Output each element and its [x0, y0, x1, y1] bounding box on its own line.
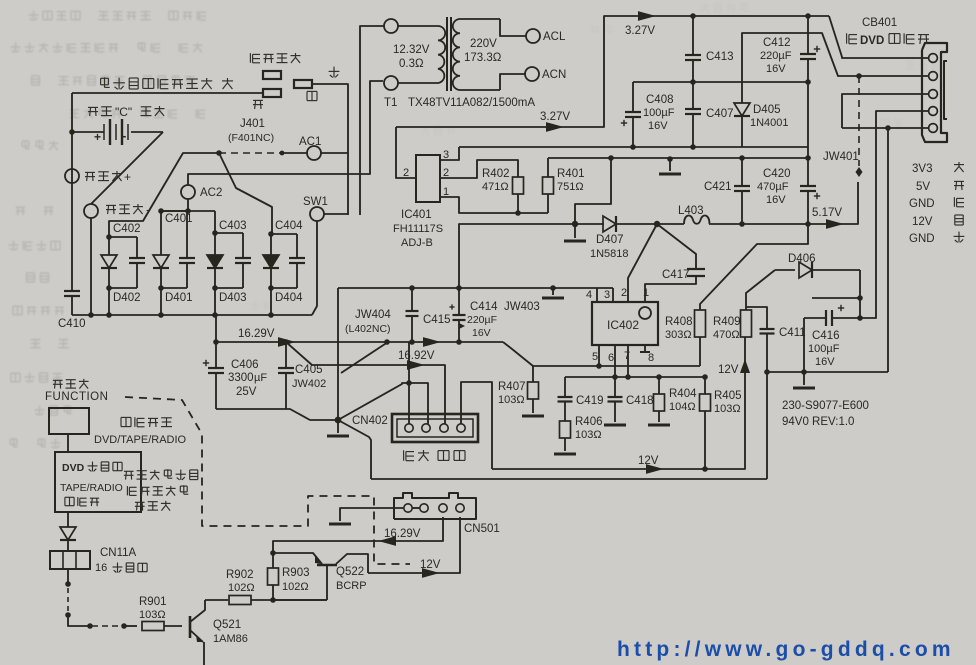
- wire: IC402 pin6 stub to C418 rail: [614, 345, 616, 377]
- svg-text:3V3: 3V3: [912, 163, 932, 175]
- svg-text:C411: C411: [779, 327, 806, 339]
- svg-text:DVD/TAPE/RADIO: DVD/TAPE/RADIO: [94, 434, 187, 446]
- label: linkage switch: [250, 53, 260, 63]
- node: top rail dots: [690, 13, 696, 19]
- label: gongnengniu FUNCTION: [53, 380, 63, 388]
- transformer T1 secondary winding 12.32V: [384, 19, 445, 90]
- svg-text:1AM86: 1AM86: [213, 633, 248, 645]
- svg-text:Q522: Q522: [336, 566, 364, 578]
- svg-text:12.32V: 12.32V: [393, 44, 430, 56]
- svg-text:D407: D407: [596, 234, 624, 246]
- svg-text:102Ω: 102Ω: [228, 582, 255, 594]
- wire: C416 left drop to gnd rail: [803, 318, 805, 372]
- capacitor C412 220uF 16V: [800, 16, 820, 82]
- svg-text:6: 6: [608, 352, 614, 364]
- label: bai (white): [329, 67, 340, 78]
- capacitor C418 + ground: [604, 377, 626, 425]
- diode D401: [153, 211, 169, 288]
- resistor R401 751ohm: [543, 158, 554, 213]
- svg-text:R402: R402: [482, 168, 510, 180]
- svg-text:R406: R406: [575, 416, 603, 428]
- diode D406: [775, 262, 860, 278]
- svg-text:16: 16: [95, 562, 107, 574]
- diode D407 1N5818: [575, 216, 657, 232]
- svg-text:2: 2: [621, 287, 627, 299]
- svg-text:103Ω: 103Ω: [575, 429, 602, 441]
- battery B1 (8x C cells): [72, 119, 163, 145]
- connector CN501: [394, 493, 476, 519]
- wire: battery minus diagonal to batt- terminal: [91, 132, 163, 204]
- node: center junction with ground: [335, 417, 342, 424]
- capacitor C417: [657, 224, 705, 276]
- terminal: SW1 circle: [310, 207, 324, 221]
- svg-text:C403: C403: [219, 220, 247, 232]
- wire: SW1 to white vertical: [324, 213, 348, 215]
- label: dianchi-: [106, 205, 116, 214]
- wire: IC401 pin2-right to R402 top: [440, 160, 518, 178]
- wire: pair C404/D404 top+bottom: [271, 233, 297, 235]
- svg-text:3300: 3300: [228, 372, 254, 384]
- label: dao: [307, 91, 317, 100]
- svg-text:7: 7: [624, 350, 630, 362]
- capacitor C404: [289, 234, 305, 288]
- block: function button box: [49, 408, 89, 434]
- svg-text:5V: 5V: [916, 181, 930, 193]
- wire: function box to DVD box: [67, 434, 69, 452]
- wire: gnd rail under C411/C416: [767, 371, 888, 373]
- wire: C408 rail: [633, 81, 808, 83]
- wire: CN501 pin3 16.29V line to Q522 emitter: [273, 517, 443, 553]
- wire: IC402 pin5 stub: [598, 345, 600, 366]
- svg-text:GND: GND: [909, 198, 935, 210]
- svg-text:C414: C414: [470, 301, 498, 313]
- node: battery + junction: [69, 129, 75, 135]
- resistor R404 104ohm + ground: [648, 377, 670, 425]
- wire: pair C402/D402 top+bottom: [109, 236, 137, 238]
- svg-text:FUNCTION: FUNCTION: [45, 391, 108, 403]
- svg-text:D401: D401: [165, 292, 193, 304]
- wire: R902 to Q522 base net: [273, 599, 327, 601]
- svg-text:25V: 25V: [236, 386, 257, 398]
- svg-text:ADJ-B: ADJ-B: [401, 237, 433, 249]
- label: huang (yellow): [222, 78, 233, 89]
- svg-text:3.27V: 3.27V: [625, 25, 655, 37]
- IC IC401 FH11117S ADJ-B: [416, 155, 440, 202]
- wire: IC401 pin1 to R402/R401 bottoms: [440, 197, 548, 213]
- node: J401 junction: [216, 150, 222, 156]
- capacitor C415: [406, 288, 419, 342]
- capacitor C401: [179, 211, 195, 288]
- svg-text:GND: GND: [909, 233, 935, 245]
- wire: IC401 pin3 to R rail: [440, 147, 459, 160]
- svg-text:R404: R404: [669, 388, 697, 400]
- wire: bridge bottom rail: [72, 314, 312, 316]
- wire: IC402 pin7 stub: [627, 345, 629, 377]
- svg-text:16V: 16V: [472, 327, 491, 339]
- capacitor C421: [734, 158, 750, 224]
- svg-text:100µF: 100µF: [643, 107, 675, 119]
- svg-text:Q521: Q521: [213, 619, 241, 631]
- wire: diagonal from 16.29V rail to center vertical: [341, 342, 388, 373]
- diode D (panel): [60, 527, 76, 540]
- svg-text:-: -: [122, 128, 126, 143]
- transformer T1 core: [446, 17, 448, 91]
- wire: CN402 pin1 drop: [408, 383, 410, 424]
- wire: J401 dashed link to AC1: [219, 152, 282, 154]
- wire: base line Q522: [273, 599, 327, 601]
- svg-text:R901: R901: [139, 596, 167, 608]
- wire: AC2 rail across C401/C403 tops: [161, 210, 215, 212]
- svg-text:173.3Ω: 173.3Ω: [464, 52, 502, 64]
- wire: AC2 stub and link to transformer secondary bottom: [187, 199, 189, 211]
- diode D402: [101, 237, 117, 288]
- wire: IC402 pin5 rail: [533, 365, 700, 367]
- svg-text:+: +: [124, 170, 131, 184]
- label: to DVD decoder board: [847, 33, 857, 43]
- svg-text:CB401: CB401: [862, 17, 897, 29]
- svg-text:C407: C407: [706, 108, 734, 120]
- terminal ACN: [525, 67, 539, 81]
- svg-text:5: 5: [592, 351, 598, 363]
- svg-text:J401: J401: [240, 118, 265, 130]
- wire: pin5 gnd drop to bottom gnd rail: [887, 128, 889, 372]
- dashed boundary: panel control board: [125, 397, 410, 564]
- svg-text:C415: C415: [423, 314, 451, 326]
- switch SW 'wei' upper contact: [263, 71, 281, 79]
- capacitor C420 470uF 16V: [800, 186, 820, 224]
- svg-text:SW1: SW1: [303, 196, 328, 208]
- capacitor C405 / JW402: [278, 342, 294, 409]
- wire: 16.29V rail with arrow: [216, 341, 503, 343]
- capacitor C407: [685, 82, 701, 147]
- svg-text:104Ω: 104Ω: [669, 401, 696, 413]
- wire: pair C403/D403 top+bottom: [215, 232, 243, 234]
- svg-text:12V: 12V: [638, 455, 659, 467]
- svg-text:100µF: 100µF: [808, 343, 840, 355]
- svg-text:R407: R407: [498, 381, 526, 393]
- wire: left vertical battery rail: [71, 93, 73, 288]
- wire: 5V net from D405 top to CB401 pin2: [742, 33, 929, 101]
- diode D403: [207, 233, 223, 288]
- pin: IC402 pin8 NC tick: [644, 345, 646, 352]
- label: wei: [253, 100, 263, 109]
- svg-text:C404: C404: [275, 220, 303, 232]
- node: D407 anode junction + ground: [572, 221, 578, 227]
- capacitor C416 100uF 16V electrolytic: [804, 305, 860, 326]
- diode D404: [263, 234, 279, 288]
- wire: C406/C405 bottom rail to center junction: [216, 409, 338, 420]
- transistor Q521 1AM86: [190, 600, 205, 665]
- transformer T1 primary winding 220V: [453, 19, 526, 90]
- wire: battery top to wei switch: [72, 92, 263, 94]
- wire: IC402 pin1 stub to C417: [645, 276, 696, 302]
- resistor R402 471ohm: [513, 177, 524, 194]
- svg-text:L403: L403: [678, 205, 704, 217]
- svg-text:230-S9077-E600: 230-S9077-E600: [782, 400, 869, 412]
- wire: transformer secondary top to vertical x360: [360, 26, 384, 215]
- svg-text:C401: C401: [165, 213, 193, 225]
- svg-text:C421: C421: [704, 181, 732, 193]
- svg-text:3.27V: 3.27V: [540, 111, 570, 123]
- terminal: batt+ circle: [65, 169, 79, 183]
- svg-text:C420: C420: [763, 168, 791, 180]
- wire: C408 branch down to adj rail: [632, 82, 634, 112]
- svg-text:R409: R409: [713, 316, 741, 328]
- wire: 12V rail to R409 bottom: [492, 337, 745, 469]
- wire: junction diagonal to CN402 pin1/pin2 header: [338, 383, 428, 424]
- switch SW 'wei' lower contact: [263, 89, 281, 97]
- svg-text:CN11A: CN11A: [100, 547, 137, 559]
- resistor R902 102ohm: [229, 596, 251, 605]
- svg-text:+: +: [94, 130, 101, 144]
- wire: SW1 down to bridge bottom rail: [312, 221, 317, 315]
- wire: mid rail (C415/C414 top) to IC402 pins: [338, 287, 613, 289]
- svg-text:16V: 16V: [648, 120, 668, 132]
- wire: dashed link to R901: [87, 623, 93, 629]
- capacitor C406 3300uF: [203, 315, 224, 409]
- svg-text:D402: D402: [113, 292, 141, 304]
- label: 8-cell C battery: [88, 107, 98, 116]
- wire: adj rail ground stub: [667, 156, 673, 162]
- svg-text:D406: D406: [788, 253, 816, 265]
- svg-text:ACL: ACL: [543, 31, 566, 43]
- svg-text:103Ω: 103Ω: [139, 609, 166, 621]
- svg-text:8: 8: [648, 352, 654, 364]
- svg-text:1: 1: [643, 287, 649, 299]
- svg-text:"C": "C": [115, 105, 132, 119]
- svg-text:470µF: 470µF: [757, 181, 789, 193]
- wire: C411 bottom to 12V return rail: [766, 372, 768, 479]
- svg-text:12V: 12V: [912, 216, 933, 228]
- svg-text:16V: 16V: [766, 194, 786, 206]
- svg-text:CN402: CN402: [352, 415, 388, 427]
- terminal ACL: [526, 29, 540, 43]
- wire: IC401 output rail (5.17V rail left part): [459, 224, 575, 288]
- svg-text:220µF: 220µF: [467, 314, 497, 326]
- label: power switch DVD/TAPE/RADIO: [121, 417, 131, 426]
- svg-text:AC2: AC2: [200, 187, 222, 199]
- capacitor C414 220uF 16V: [449, 288, 465, 342]
- capacitor C419: [558, 377, 573, 402]
- svg-text:1N4001: 1N4001: [750, 117, 789, 129]
- svg-text:470Ω: 470Ω: [713, 329, 740, 341]
- svg-text:471Ω: 471Ω: [482, 181, 509, 193]
- wire: CN501 pin4 12V line: [368, 517, 460, 573]
- svg-text:T1: T1: [384, 97, 397, 109]
- svg-text:16V: 16V: [815, 356, 835, 368]
- ground: gnd rail stub: [803, 372, 805, 385]
- svg-text:16.29V: 16.29V: [384, 528, 421, 540]
- wire: IC402 pin2 stub + diagonal to 5.17V junction: [628, 224, 657, 302]
- svg-text:ACN: ACN: [542, 69, 566, 81]
- wire: R402/R401 top rail (pin3 net): [459, 146, 808, 148]
- svg-text:102Ω: 102Ω: [282, 581, 309, 593]
- wire: pair C401/D401 top+bottom: [161, 210, 187, 212]
- svg-text:R408: R408: [665, 316, 693, 328]
- resistor R405 103ohm: [700, 377, 711, 469]
- svg-text:CN501: CN501: [464, 523, 500, 535]
- wire: IC401 pin2-left to 3.27V rail: [396, 127, 416, 178]
- wire: CB401 pin5 gnd: [842, 127, 928, 129]
- terminal: batt- circle: [84, 204, 98, 218]
- svg-text:C406: C406: [231, 359, 259, 371]
- wire: C412 column down through rails to 5.17V rail: [807, 82, 809, 186]
- svg-text:D405: D405: [753, 104, 781, 116]
- svg-text:16.92V: 16.92V: [398, 350, 435, 362]
- svg-text:103Ω: 103Ω: [498, 394, 525, 406]
- svg-text:DVD: DVD: [860, 35, 884, 47]
- wire: vertical from mid rail to center junction: [337, 288, 339, 420]
- svg-text:JW401: JW401: [823, 151, 859, 163]
- svg-text:IC401: IC401: [401, 209, 432, 221]
- svg-text:R405: R405: [714, 390, 742, 402]
- wire: ground return rail bottom: [371, 478, 767, 480]
- wire: R409 bottom with 12V up arrow: [741, 362, 748, 372]
- capacitor C403: [235, 233, 251, 288]
- label: wire colors bai huang hei hong: [404, 450, 414, 460]
- resistor R901 103ohm: [142, 622, 164, 631]
- capacitor C411: [746, 307, 775, 372]
- svg-text:R903: R903: [282, 567, 310, 579]
- wire: J401 left diagonal to D402 branch: [109, 153, 219, 237]
- wire: rail bend to R407 feed: [503, 342, 533, 366]
- terminal: AC1 circle: [307, 146, 321, 160]
- inductor L403: [657, 215, 742, 224]
- svg-text:5.17V: 5.17V: [812, 207, 842, 219]
- svg-text:TX48TV11A082/1500mA: TX48TV11A082/1500mA: [408, 97, 535, 109]
- resistor R903 102ohm: [268, 550, 279, 600]
- svg-text:220V: 220V: [470, 38, 497, 50]
- wire: C419-C418-R404-R405 rail: [565, 376, 705, 378]
- wire: R401 top rail to D407 jog: [548, 158, 611, 224]
- svg-text:FH11117S: FH11117S: [393, 223, 443, 235]
- svg-text:DVD: DVD: [62, 462, 85, 474]
- svg-text:C413: C413: [706, 51, 734, 63]
- resistor R407 103ohm + ground: [522, 366, 544, 416]
- svg-text:16V: 16V: [766, 63, 786, 75]
- wire: R401-C421-C420 rail: [611, 157, 808, 159]
- wire: 3.27V rail from IC401 to top net: [396, 16, 829, 127]
- wire: AC1 to white-wire vertical: [321, 152, 348, 154]
- connector CN11A: [50, 551, 90, 569]
- svg-text:1N5818: 1N5818: [590, 248, 629, 260]
- svg-text:C410: C410: [58, 318, 86, 330]
- wire: CN402 pin4 to 12V rail: [461, 382, 492, 469]
- switch 'dao' contact: [294, 80, 312, 88]
- capacitor C402: [129, 237, 145, 288]
- label: pull-plug note (bai-huang): [101, 77, 110, 87]
- capacitor C410: [71, 288, 73, 291]
- svg-text:303Ω: 303Ω: [665, 329, 692, 341]
- svg-text:C402: C402: [113, 223, 141, 235]
- wire: dao switch to AC1/SW1 vertical (white wire): [312, 84, 348, 215]
- svg-text:R401: R401: [557, 168, 585, 180]
- connector CB401 to DVD decoder board: [922, 43, 947, 142]
- svg-text:3: 3: [604, 289, 610, 301]
- node: JW403 stub + ground: [550, 285, 556, 291]
- wire: junction diagonal down to ground return rail: [338, 420, 371, 479]
- wire: J401 right diagonal to D404 branch: [219, 153, 272, 234]
- svg-text:D403: D403: [219, 292, 247, 304]
- wire: IC402 pin4/pin3 stubs to mid rail: [596, 288, 598, 302]
- svg-text:220µF: 220µF: [760, 50, 792, 62]
- svg-text:R902: R902: [226, 569, 254, 581]
- svg-text:94V0 REV:1.0: 94V0 REV:1.0: [782, 416, 854, 428]
- capacitor C408 100uF 16V: [621, 112, 641, 147]
- svg-text:AC1: AC1: [299, 136, 321, 148]
- wire: CB401 pin3 gnd loop: [842, 94, 928, 128]
- svg-text:JW404: JW404: [355, 309, 391, 321]
- wire: CN501 pin1 to ground: [340, 508, 404, 521]
- wire: stub from D406 column: [812, 297, 860, 299]
- svg-text:C416: C416: [812, 330, 840, 342]
- wire: CB401 pin4 12V drop: [860, 111, 928, 318]
- svg-text:0.3Ω: 0.3Ω: [399, 58, 424, 70]
- label: dianchi+: [85, 172, 95, 181]
- label: panel control text: [124, 471, 134, 479]
- block: DVD level box: [55, 452, 141, 512]
- svg-text:TAPE/RADIO: TAPE/RADIO: [60, 482, 123, 494]
- svg-text:103Ω: 103Ω: [714, 403, 741, 415]
- transistor Q522 BCRP: [273, 553, 368, 600]
- resistor R408 303ohm: [695, 224, 809, 366]
- wire: Q521 collector to R902: [205, 599, 228, 601]
- wire: CB401 pin1 from 3.27V top rail: [829, 16, 928, 58]
- diode D405 1N4001: [734, 101, 750, 147]
- svg-text:(F401NC): (F401NC): [228, 132, 274, 144]
- svg-text:http://www.go-gddq.com: http://www.go-gddq.com: [617, 638, 955, 661]
- svg-text:IC402: IC402: [607, 318, 639, 332]
- svg-text:C419: C419: [576, 395, 604, 407]
- svg-text:D404: D404: [275, 292, 303, 304]
- wire: batt- down to bottom rail: [90, 218, 92, 315]
- svg-text:12V: 12V: [718, 364, 739, 376]
- wire: CN11A dashed drop: [67, 569, 69, 582]
- capacitor C413: [685, 16, 701, 82]
- svg-text:JW403: JW403: [504, 301, 540, 313]
- svg-text:C412: C412: [763, 37, 791, 49]
- svg-text:12V: 12V: [420, 559, 441, 571]
- wire: D406 right column: [859, 270, 861, 318]
- wire: 5.17V rail to JW401: [742, 182, 858, 224]
- IC IC402: [592, 302, 658, 345]
- svg-text:C417: C417: [662, 269, 690, 281]
- svg-text:(L402NC): (L402NC): [345, 323, 391, 335]
- connector CN402: [392, 414, 478, 442]
- svg-text:4: 4: [586, 289, 592, 301]
- svg-text:16.29V: 16.29V: [238, 328, 275, 340]
- wire: DVD box down to diode: [67, 512, 69, 527]
- wire: 16.92V line to CN402 pin3: [286, 342, 445, 424]
- terminal: AC2 circle: [181, 185, 195, 199]
- svg-text:751Ω: 751Ω: [557, 181, 584, 193]
- svg-text:µF: µF: [254, 372, 267, 384]
- svg-text:C408: C408: [646, 94, 674, 106]
- svg-text:JW402: JW402: [292, 378, 326, 390]
- svg-text:BCRP: BCRP: [336, 580, 367, 592]
- svg-text:C418: C418: [626, 395, 654, 407]
- jumper JW401 dashed: [858, 76, 860, 166]
- resistor R409 470ohm: [741, 270, 776, 337]
- resistor R406 103ohm + ground: [554, 402, 576, 454]
